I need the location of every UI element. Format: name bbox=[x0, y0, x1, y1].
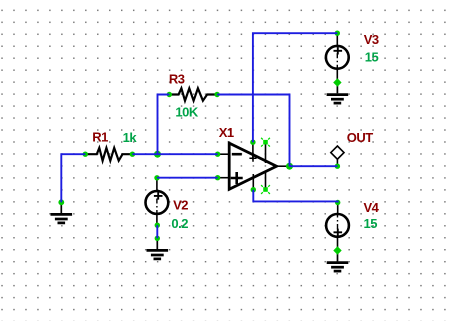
node V4 bottom / ground G4 (diamond marker) bbox=[333, 246, 341, 254]
unconnected pin marker bottom right of op-amp bbox=[261, 185, 270, 194]
op-amp X1 plus input mark bbox=[231, 172, 243, 184]
node op-amp inverting input bbox=[215, 152, 220, 157]
node OUT terminal bbox=[335, 164, 340, 169]
svg-text:0.2: 0.2 bbox=[171, 216, 188, 231]
op-amp X1 minus input mark bbox=[232, 153, 242, 156]
svg-text:V2: V2 bbox=[173, 197, 188, 212]
wire junction up to R3 left bbox=[158, 95, 170, 155]
node ground G1 top bbox=[58, 199, 64, 205]
wire R3 right to output node (feedback) bbox=[217, 95, 289, 167]
node op-amp non-inverting input bbox=[215, 175, 220, 180]
op-amp X1 V+ supply pin bbox=[252, 142, 254, 159]
svg-text:1k: 1k bbox=[123, 130, 138, 145]
junction node op-amp output bbox=[286, 163, 293, 170]
wire from R1 right through junction to op-amp inverting input bbox=[132, 153, 217, 155]
op-amp X1 triangle body bbox=[229, 143, 276, 189]
node R3 left bbox=[167, 92, 172, 97]
op-amp X1 V- supply pin bbox=[252, 174, 254, 190]
wire V2 bottom to ground G2 bbox=[156, 225, 158, 238]
junction node at R1/R3/op-amp input bbox=[154, 151, 161, 158]
node R1 left bbox=[83, 152, 88, 157]
resistor R3 bbox=[169, 88, 217, 100]
wire input corner from ground G1 up and right to R1 bbox=[61, 154, 85, 202]
node V4 top bbox=[335, 200, 340, 205]
wire op-amp V- pin down and right to V4 top bbox=[253, 190, 337, 203]
svg-text:10K: 10K bbox=[175, 105, 198, 120]
svg-text:R1: R1 bbox=[92, 129, 108, 144]
svg-text:15: 15 bbox=[364, 216, 378, 231]
node V2 bottom bbox=[155, 223, 160, 228]
op-amp X1 top right unconnected pin bbox=[265, 142, 267, 163]
wire V2 top to op-amp non-inverting input bbox=[157, 177, 218, 179]
svg-text:OUT: OUT bbox=[347, 130, 374, 145]
node op-amp V- pin bbox=[251, 187, 256, 192]
resistor R1 bbox=[85, 148, 132, 161]
node op-amp V+ pin bbox=[250, 140, 255, 145]
op-amp X1 bbox=[218, 142, 290, 190]
wire op-amp output to OUT terminal bbox=[290, 165, 338, 167]
op-amp X1 bottom right unconnected pin bbox=[265, 171, 267, 190]
op-amp X1 non-inverting input pin bbox=[218, 177, 230, 179]
svg-text:V4: V4 bbox=[364, 200, 380, 215]
node R1 right bbox=[130, 152, 135, 157]
svg-text:V3: V3 bbox=[364, 32, 379, 47]
op-amp X1 V+ small plus mark bbox=[249, 155, 256, 162]
OUT terminal diamond bbox=[331, 146, 344, 166]
node R3 right bbox=[214, 92, 219, 97]
op-amp X1 output pin bbox=[277, 165, 290, 167]
ground G4 (below V4) bbox=[327, 251, 349, 272]
voltage source V2 bbox=[146, 179, 169, 225]
ground G2 (below V2) bbox=[147, 238, 169, 259]
node V3 bottom / ground G3 (diamond marker) bbox=[333, 78, 341, 86]
op-amp X1 inverting input pin bbox=[218, 153, 230, 155]
node ground G2 top bbox=[155, 236, 160, 241]
svg-text:X1: X1 bbox=[219, 125, 234, 140]
voltage source V4 bbox=[326, 203, 349, 250]
node V2 top bbox=[154, 175, 159, 180]
wire op-amp V+ pin up and right to V3 top bbox=[253, 33, 337, 142]
svg-text:15: 15 bbox=[365, 50, 379, 65]
node V3 top bbox=[335, 31, 340, 36]
ground G1 (input) bbox=[51, 202, 73, 223]
unconnected pin marker top right of op-amp bbox=[261, 138, 270, 147]
ground G3 (below V3) bbox=[327, 83, 349, 104]
voltage source V3 bbox=[326, 33, 349, 81]
svg-text:R3: R3 bbox=[169, 71, 185, 86]
